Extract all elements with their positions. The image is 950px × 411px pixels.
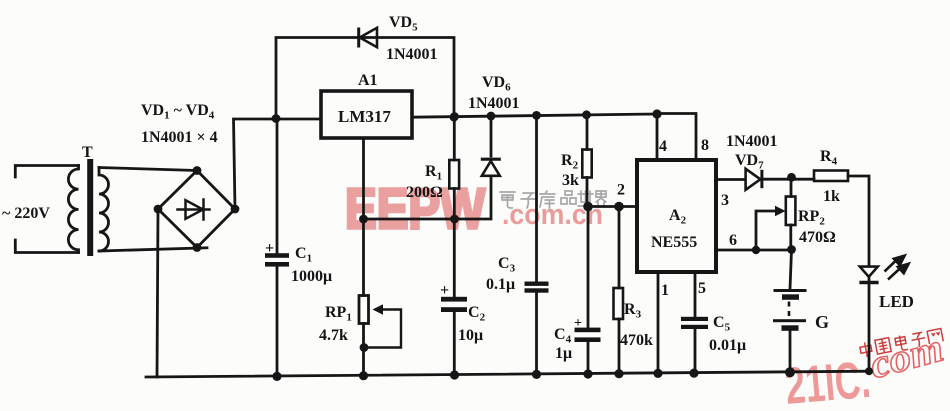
svg-text:4.7k: 4.7k bbox=[319, 327, 348, 344]
svg-text:VD1 ~ VD4: VD1 ~ VD4 bbox=[141, 102, 215, 122]
svg-text:+: + bbox=[440, 282, 449, 299]
svg-text:NE555: NE555 bbox=[651, 234, 697, 251]
svg-text:~ 220V: ~ 220V bbox=[2, 205, 50, 222]
svg-text:3k: 3k bbox=[562, 172, 579, 189]
svg-text:T: T bbox=[82, 144, 93, 161]
svg-text:10μ: 10μ bbox=[458, 327, 483, 344]
svg-text:1N4001: 1N4001 bbox=[726, 133, 778, 150]
svg-text:1N4001 × 4: 1N4001 × 4 bbox=[141, 129, 218, 146]
svg-text:2: 2 bbox=[617, 182, 625, 199]
svg-text:G: G bbox=[815, 312, 829, 332]
svg-text:1k: 1k bbox=[823, 188, 840, 205]
svg-text:+: + bbox=[574, 316, 582, 331]
svg-text:470k: 470k bbox=[620, 332, 653, 349]
svg-text:1000μ: 1000μ bbox=[291, 268, 332, 285]
svg-text:200Ω: 200Ω bbox=[406, 184, 443, 201]
svg-text:A1: A1 bbox=[358, 72, 378, 89]
svg-text:470Ω: 470Ω bbox=[799, 229, 836, 246]
svg-text:1: 1 bbox=[661, 282, 669, 299]
svg-text:LED: LED bbox=[879, 292, 914, 311]
svg-text:5: 5 bbox=[698, 280, 706, 297]
svg-text:1N4001: 1N4001 bbox=[468, 95, 520, 112]
svg-text:8: 8 bbox=[701, 137, 709, 154]
svg-text:+: + bbox=[265, 240, 274, 257]
svg-text:0.01μ: 0.01μ bbox=[709, 337, 746, 354]
svg-text:6: 6 bbox=[729, 232, 737, 249]
svg-text:3: 3 bbox=[721, 192, 729, 209]
svg-text:4: 4 bbox=[659, 138, 667, 155]
svg-text:1μ: 1μ bbox=[555, 345, 572, 362]
svg-text:0.1μ: 0.1μ bbox=[486, 276, 515, 293]
svg-text:LM317: LM317 bbox=[338, 107, 391, 126]
svg-text:1N4001: 1N4001 bbox=[386, 46, 438, 63]
svg-text:21IC.: 21IC. bbox=[783, 351, 873, 411]
